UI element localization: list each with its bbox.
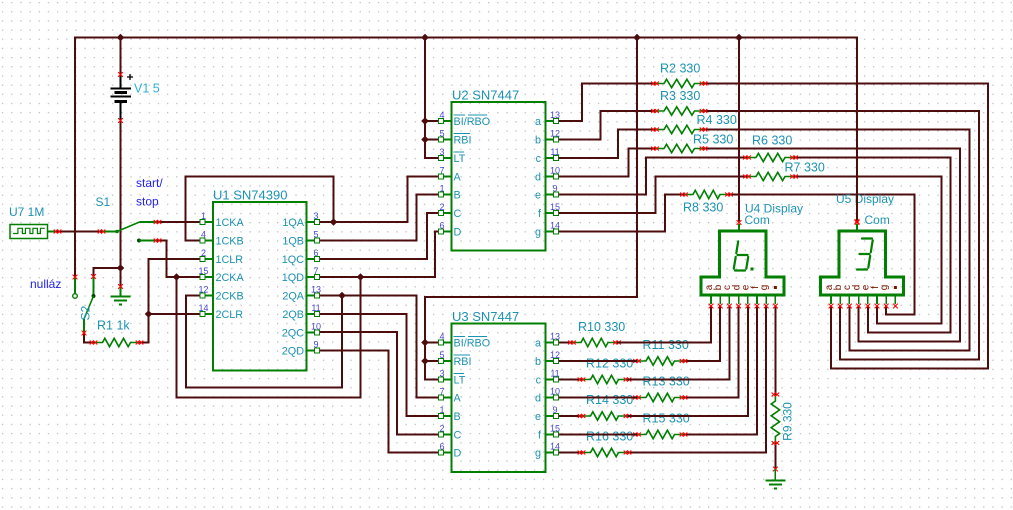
pin 3 (1QA) of U1 xyxy=(307,211,320,224)
x-mark battery plus terminal xyxy=(118,72,123,77)
ground symbol near battery xyxy=(120,287,122,297)
svg-text:C: C xyxy=(454,430,462,442)
wire stub U3 BI/RBO xyxy=(425,342,442,344)
wire U3 g to R16 xyxy=(556,452,582,454)
x-mark R13 left xyxy=(633,396,637,400)
svg-text:d: d xyxy=(535,393,541,405)
svg-text:LT: LT xyxy=(454,153,466,165)
x-mark U5 Com xyxy=(855,220,860,225)
wire U7 output to S1 pole xyxy=(57,231,102,233)
svg-text:d: d xyxy=(535,172,541,184)
svg-text:11: 11 xyxy=(311,303,320,313)
x-mark R1 right xyxy=(136,341,140,345)
display U4 pin letters (rotated a-g) xyxy=(704,284,777,290)
x-mark R1 left xyxy=(90,341,94,345)
x-mark R9 bottom xyxy=(772,441,776,445)
resistor R7 xyxy=(747,172,794,180)
x-mark R11 right xyxy=(680,359,684,363)
pin names U3 left (BI/RBO RBI LT A B C D) xyxy=(454,337,491,460)
svg-text:e: e xyxy=(535,411,541,423)
svg-text:5: 5 xyxy=(313,230,318,240)
wire S1 upper throw to U1 1CKA xyxy=(158,221,204,223)
svg-text:U1 SN74390: U1 SN74390 xyxy=(213,188,287,203)
wire stub U2 BI/RBO xyxy=(425,120,442,122)
svg-text:S2: S2 xyxy=(79,305,93,320)
pin names U1 right xyxy=(282,217,305,358)
pin 14 (2CLR) of U1 xyxy=(198,303,213,316)
svg-text:1QB: 1QB xyxy=(282,236,304,248)
wire 2QA feedback to 2CKB xyxy=(186,296,342,388)
svg-text:11: 11 xyxy=(550,147,559,157)
wire R4 to U5 segment c xyxy=(704,130,970,351)
junction +5V rail at U3 blanking drop xyxy=(633,34,641,42)
wire S2/R1 reset net: S2 bottom to R1 xyxy=(84,333,94,343)
pin 10 (2QC) of U1 xyxy=(307,322,322,335)
x-mark R10 left xyxy=(568,341,572,345)
svg-text:g: g xyxy=(535,448,541,460)
pin 9 (e) of U3 xyxy=(546,405,559,418)
svg-text:1QC: 1QC xyxy=(282,254,304,266)
pin 15 (f) of U3 xyxy=(546,424,561,437)
pin 2 (1CLR) of U1 xyxy=(200,248,213,261)
pin 15 (2CKA) of U1 xyxy=(198,266,213,279)
svg-text:2: 2 xyxy=(201,248,206,258)
svg-text:9: 9 xyxy=(552,405,557,415)
pin names U1 left xyxy=(216,217,245,321)
svg-text:R14 330: R14 330 xyxy=(586,393,633,407)
wire stub U3 LT xyxy=(424,379,442,381)
pin 13 (2QA) of U1 xyxy=(307,285,322,298)
svg-text:3: 3 xyxy=(439,147,444,157)
x-mark R8 right xyxy=(725,193,729,197)
svg-text:13: 13 xyxy=(311,285,321,295)
wire +5V rail right drop to U5 Com xyxy=(856,36,858,221)
svg-text:LT: LT xyxy=(454,375,466,387)
wire +5V to U2 blanking pins BI/RBO RBI LT xyxy=(424,38,426,159)
resistor R12 xyxy=(582,375,628,383)
svg-text:R15 330: R15 330 xyxy=(643,412,690,426)
wire 2QC to U3 C xyxy=(317,332,442,435)
wire 2QD to U3 D xyxy=(317,351,442,453)
svg-text:c: c xyxy=(536,153,542,165)
wire U4 dp to R9 xyxy=(774,306,776,395)
pin 4 (1CKB) of U1 xyxy=(200,230,213,243)
pin 10 (d) of U3 xyxy=(546,387,561,400)
x-mark R13 right xyxy=(680,396,684,400)
svg-text:R4 330: R4 330 xyxy=(697,113,737,127)
wire stub U3 RBI xyxy=(425,360,442,362)
svg-text:1QA: 1QA xyxy=(282,217,304,229)
junction 1QA node xyxy=(330,218,338,226)
display U4 segment pins a-g dp xyxy=(709,295,778,308)
svg-text:BI/RBO: BI/RBO xyxy=(454,338,491,350)
svg-text:R11 330: R11 330 xyxy=(643,338,689,352)
junction +5V rail at battery xyxy=(117,34,125,42)
x-mark R14 right xyxy=(624,414,628,418)
wire 1QB to U2 B xyxy=(317,195,442,241)
wire R6 to U5 segment e xyxy=(794,158,951,333)
svg-text:14: 14 xyxy=(550,221,560,231)
resistor R15 xyxy=(637,430,684,438)
svg-text:2CLR: 2CLR xyxy=(216,309,244,321)
svg-text:c: c xyxy=(536,375,542,387)
svg-text:Com: Com xyxy=(865,213,890,227)
resistor R6 xyxy=(747,153,794,161)
pin 12 (2CKB) of U1 xyxy=(198,285,213,298)
svg-text:b: b xyxy=(535,356,541,368)
wire U3 e to R14 xyxy=(556,415,582,417)
pin 13 (a) of U3 xyxy=(546,332,561,345)
display U4 Com pin xyxy=(738,224,740,231)
svg-text:2: 2 xyxy=(439,202,444,212)
x-mark R5 left xyxy=(651,147,655,151)
wire U2 e to R6 xyxy=(556,158,748,195)
svg-text:4: 4 xyxy=(201,230,206,240)
svg-text:S1: S1 xyxy=(96,195,111,209)
wire +5V top rail xyxy=(75,36,857,38)
svg-text:R9 330: R9 330 xyxy=(781,402,795,441)
pin names U3 right (a-g) xyxy=(535,338,542,460)
pin 13 (a) of U2 xyxy=(546,110,561,123)
wire reset branch to 2CLR xyxy=(149,313,204,315)
svg-text:2: 2 xyxy=(439,424,444,434)
switch S1 xyxy=(102,222,158,243)
wire U2 f to R7 xyxy=(556,177,748,214)
svg-text:U7 1M: U7 1M xyxy=(9,205,44,219)
wire stub U2 LT xyxy=(424,157,442,159)
junction reset net at 2CLR row xyxy=(145,310,153,318)
svg-text:10: 10 xyxy=(550,387,560,397)
pin 7 (A) of U3 xyxy=(439,387,452,400)
pin 9 (e) of U2 xyxy=(546,184,559,197)
x-mark R9 top xyxy=(772,393,776,397)
svg-text:e: e xyxy=(535,190,541,202)
resistor R16 xyxy=(582,448,628,456)
x-mark R3 left xyxy=(651,109,655,113)
pin 11 (c) of U2 xyxy=(546,147,560,160)
svg-text:1: 1 xyxy=(201,211,206,221)
svg-text:U4 Display: U4 Display xyxy=(745,202,803,216)
svg-text:11: 11 xyxy=(550,369,559,379)
pin 9 (2QD) of U1 xyxy=(307,340,320,353)
pin 1 (B) of U2 xyxy=(439,184,452,197)
svg-text:5: 5 xyxy=(439,350,444,360)
svg-text:BI/RBO: BI/RBO xyxy=(454,116,491,128)
wire U3 a to R10 xyxy=(556,342,573,344)
svg-text:R8 330: R8 330 xyxy=(683,201,723,215)
wire U3 c to R12 xyxy=(556,379,582,381)
svg-text:7: 7 xyxy=(439,387,444,397)
svg-text:1: 1 xyxy=(439,405,444,415)
x-mark R7 left xyxy=(743,175,747,179)
pin 12 (b) of U2 xyxy=(546,129,561,142)
svg-text:RBI: RBI xyxy=(454,356,472,368)
wire U3 b to R11 xyxy=(556,360,638,362)
svg-text:6: 6 xyxy=(313,248,318,258)
ground symbol under R9 xyxy=(774,469,776,481)
wire +5V rail to U4 Com xyxy=(738,38,740,222)
IC U3 SN7447 xyxy=(452,324,546,473)
resistor R14 xyxy=(582,412,628,420)
wire U3 d to R13 xyxy=(556,397,638,399)
svg-text:b: b xyxy=(535,135,541,147)
junction battery bottom node xyxy=(117,264,125,272)
clock source U7 xyxy=(10,225,57,239)
svg-text:U2 SN7447: U2 SN7447 xyxy=(452,88,519,103)
switch S2 xyxy=(73,277,96,334)
wire +5V to U3 blanking pins xyxy=(425,38,637,380)
svg-text:R3 330: R3 330 xyxy=(660,89,700,103)
svg-text:C: C xyxy=(454,208,462,220)
wire R16 to U4 segment g xyxy=(628,306,767,453)
svg-text:g: g xyxy=(879,285,890,291)
junction 1QD node xyxy=(357,273,365,281)
pin 7 (1QD) of U1 xyxy=(307,266,320,279)
svg-text:15: 15 xyxy=(198,266,208,276)
resistor R13 xyxy=(637,393,684,401)
wire R5 to U5 segment d xyxy=(704,149,961,342)
x-mark R12 right xyxy=(624,378,628,382)
pin 6 (1QC) of U1 xyxy=(307,248,320,261)
x-mark R8 left xyxy=(680,193,684,197)
svg-text:13: 13 xyxy=(550,110,560,120)
junction U2 RBI xyxy=(421,136,429,144)
wire U2 a to R2 xyxy=(556,84,656,122)
junction 2CKA node xyxy=(173,273,181,281)
pin 11 (c) of U3 xyxy=(546,369,560,382)
pin 1 (1CKA) of U1 xyxy=(200,211,213,224)
x-mark R9 ground wire end xyxy=(773,467,778,472)
wire S1 lower throw to 2CKA node xyxy=(158,241,204,278)
wire battery junction to ground xyxy=(120,268,122,287)
junction U3 BI/RBO xyxy=(421,339,429,347)
svg-text:9: 9 xyxy=(552,184,557,194)
display U4 digit segments xyxy=(734,241,748,270)
svg-text:B: B xyxy=(454,190,461,202)
svg-text:D: D xyxy=(454,448,462,460)
svg-text:1: 1 xyxy=(439,184,444,194)
wire 1QA to U2 A xyxy=(317,177,442,223)
resistor R8 xyxy=(684,190,729,198)
wire R8 to U5 segment g xyxy=(729,195,915,315)
pin 3 (LT) of U2 xyxy=(439,147,452,160)
svg-text:V1 5: V1 5 xyxy=(134,82,160,96)
battery V1 xyxy=(111,74,134,121)
x-mark R2 right xyxy=(700,82,704,86)
svg-text:U5 Display: U5 Display xyxy=(836,192,894,206)
x-mark S2 top contact xyxy=(73,275,78,280)
wire R10 to U4 segment a xyxy=(617,306,711,343)
pin 14 (g) of U2 xyxy=(546,221,561,234)
resistor R5 xyxy=(655,144,704,152)
x-mark S2 bottom xyxy=(82,331,87,336)
svg-text:10: 10 xyxy=(550,166,560,176)
svg-text:1CKA: 1CKA xyxy=(216,217,245,229)
resistor R3 xyxy=(655,107,704,115)
svg-text:12: 12 xyxy=(550,129,560,139)
display U5 pin letters (rotated a-g) xyxy=(824,284,897,290)
svg-text:U3 SN7447: U3 SN7447 xyxy=(452,309,519,324)
svg-text:12: 12 xyxy=(550,350,560,360)
resistor R10 xyxy=(572,338,617,346)
pin 10 (d) of U2 xyxy=(546,166,561,179)
wire R13 to U4 segment d xyxy=(684,306,739,398)
svg-text:14: 14 xyxy=(550,442,560,452)
svg-text:2QD: 2QD xyxy=(282,346,304,358)
x-mark R12 left xyxy=(578,378,582,382)
pin 3 (LT) of U3 xyxy=(439,369,452,382)
wire overlays crossing lower resistor labels xyxy=(556,343,748,435)
svg-text:3: 3 xyxy=(313,211,318,221)
display U5 body xyxy=(821,231,904,295)
x-mark R6 left xyxy=(743,156,747,160)
pin 5 (RBI) of U3 xyxy=(439,350,452,363)
svg-text:10: 10 xyxy=(311,322,321,332)
pin 7 (A) of U2 xyxy=(439,166,452,179)
pin 4 (BI/RBO) of U3 xyxy=(439,332,452,345)
wire R11 to U4 segment b xyxy=(684,306,721,362)
resistor R1 1k xyxy=(94,338,140,346)
svg-text:4: 4 xyxy=(439,332,444,342)
wire U2 c to R4 xyxy=(556,130,656,159)
junction U3 RBI xyxy=(421,357,429,365)
pin names U2 right (a-g) xyxy=(535,116,542,239)
svg-text:start/: start/ xyxy=(136,176,163,190)
svg-text:4: 4 xyxy=(439,110,444,120)
svg-text:2QC: 2QC xyxy=(282,328,304,340)
x-mark R2 left xyxy=(651,82,655,86)
svg-text:14: 14 xyxy=(198,303,208,313)
svg-text:5: 5 xyxy=(439,129,444,139)
wire R1 right to 1CLR and 2CLR xyxy=(140,259,204,343)
svg-text:a: a xyxy=(535,116,541,128)
junction +5V rail at U2 blanking drop xyxy=(421,34,429,42)
pin 12 (b) of U3 xyxy=(546,350,561,363)
x-mark S1 pole xyxy=(98,230,102,234)
x-mark R6 right xyxy=(790,156,794,160)
svg-text:7: 7 xyxy=(439,166,444,176)
svg-text:1QD: 1QD xyxy=(282,272,304,284)
svg-text:R6 330: R6 330 xyxy=(752,134,792,148)
x-mark U5 Com (over label) xyxy=(855,219,860,224)
svg-text:9: 9 xyxy=(313,340,318,350)
x-mark R4 right xyxy=(700,128,704,132)
wire R2 to U5 segment a xyxy=(704,84,989,369)
svg-text:R5 330: R5 330 xyxy=(693,133,733,147)
pin 15 (f) of U2 xyxy=(546,202,561,215)
resistor R2 xyxy=(655,79,704,87)
x-mark S2 pole xyxy=(91,274,96,279)
svg-text:nulláz: nulláz xyxy=(30,277,61,291)
wire R15 to U4 segment f xyxy=(684,306,758,435)
svg-text:B: B xyxy=(454,411,461,423)
wire 1QA feedback to 1CKB xyxy=(186,177,334,241)
junction +5V rail at U4 Com drop xyxy=(735,34,743,42)
svg-text:RBI: RBI xyxy=(454,135,472,147)
x-mark R15 left xyxy=(633,433,637,437)
svg-text:2CKB: 2CKB xyxy=(216,291,244,303)
svg-text:g: g xyxy=(535,227,541,239)
wire battery junction to S2 pole branch xyxy=(94,268,121,277)
display U5 digit segments xyxy=(857,239,873,270)
svg-text:R12 330: R12 330 xyxy=(586,357,633,371)
x-mark R4 left xyxy=(651,128,655,132)
svg-text:15: 15 xyxy=(550,202,560,212)
IC U2 SN7447 xyxy=(452,102,546,251)
svg-text:13: 13 xyxy=(550,332,560,342)
wire 1QD to U2 D xyxy=(317,232,442,278)
pin 6 (D) of U2 xyxy=(439,221,452,234)
svg-text:a: a xyxy=(535,338,541,350)
wire U3 f to R15 xyxy=(556,434,638,436)
x-mark U4 Com xyxy=(737,220,742,225)
wire 2CKA node loop to 1QD xyxy=(177,277,361,398)
display U4 body xyxy=(701,231,784,295)
pin 2 (C) of U2 xyxy=(439,202,452,215)
svg-text:6: 6 xyxy=(439,442,444,452)
svg-text:R16 330: R16 330 xyxy=(586,430,633,444)
svg-text:R13 330: R13 330 xyxy=(643,375,690,389)
x-mark R10 right xyxy=(613,341,617,345)
display U5 segment pins a-g dp xyxy=(829,295,898,308)
resistor R9 330 (vertical) xyxy=(771,395,779,444)
pin 2 (C) of U3 xyxy=(439,424,452,437)
x-mark R14 left xyxy=(578,414,582,418)
pin 4 (BI/RBO) of U2 xyxy=(439,110,452,123)
x-mark ground near battery xyxy=(118,284,123,289)
display U5 Com pin xyxy=(856,224,858,231)
pin 5 (RBI) of U2 xyxy=(439,129,452,142)
svg-text:stop: stop xyxy=(136,195,159,209)
wire overlay U5 Com drop over U5 Display label xyxy=(856,180,858,222)
junction U2 BI/RBO xyxy=(421,117,429,125)
pin 5 (1QB) of U1 xyxy=(307,230,320,243)
wire R3 to U5 segment b xyxy=(704,111,980,360)
x-mark R7 right xyxy=(790,175,794,179)
x-mark R15 right xyxy=(680,433,684,437)
x-mark battery minus terminal xyxy=(118,118,123,123)
svg-text:R2 330: R2 330 xyxy=(660,62,700,76)
svg-text:7: 7 xyxy=(313,266,318,276)
wire +5V rail left drop to S2 contact xyxy=(74,36,76,277)
svg-text:2CKA: 2CKA xyxy=(216,272,245,284)
x-mark U7 output xyxy=(54,230,58,234)
junction 2QA node xyxy=(338,292,346,300)
pin names U2 left (BI/RBO RBI LT A B C D) xyxy=(454,115,491,239)
svg-text:A: A xyxy=(454,393,462,405)
resistor R4 xyxy=(655,125,704,133)
x-mark S1 lower throw xyxy=(154,239,158,243)
svg-text:1CKB: 1CKB xyxy=(216,236,244,248)
svg-text:2QB: 2QB xyxy=(282,309,304,321)
wire battery top from rail xyxy=(120,38,122,75)
pin 11 (2QB) of U1 xyxy=(307,303,321,316)
svg-text:R1 1k: R1 1k xyxy=(97,319,130,333)
svg-text:A: A xyxy=(454,172,462,184)
resistor R11 xyxy=(637,357,684,365)
wire 2QA to U3 A xyxy=(317,296,442,398)
svg-text:g: g xyxy=(759,285,770,291)
wire R14 to U4 segment e xyxy=(628,306,748,417)
wire R7 to U5 segment f xyxy=(794,177,942,324)
x-mark R16 right xyxy=(624,451,628,455)
wire U2 d to R5 xyxy=(556,149,656,177)
pin 6 (D) of U3 xyxy=(439,442,452,455)
wire 1QC to U2 C xyxy=(317,213,442,259)
x-mark R16 left xyxy=(578,451,582,455)
wire stub U2 RBI xyxy=(425,139,442,141)
pin 1 (B) of U3 xyxy=(439,405,452,418)
